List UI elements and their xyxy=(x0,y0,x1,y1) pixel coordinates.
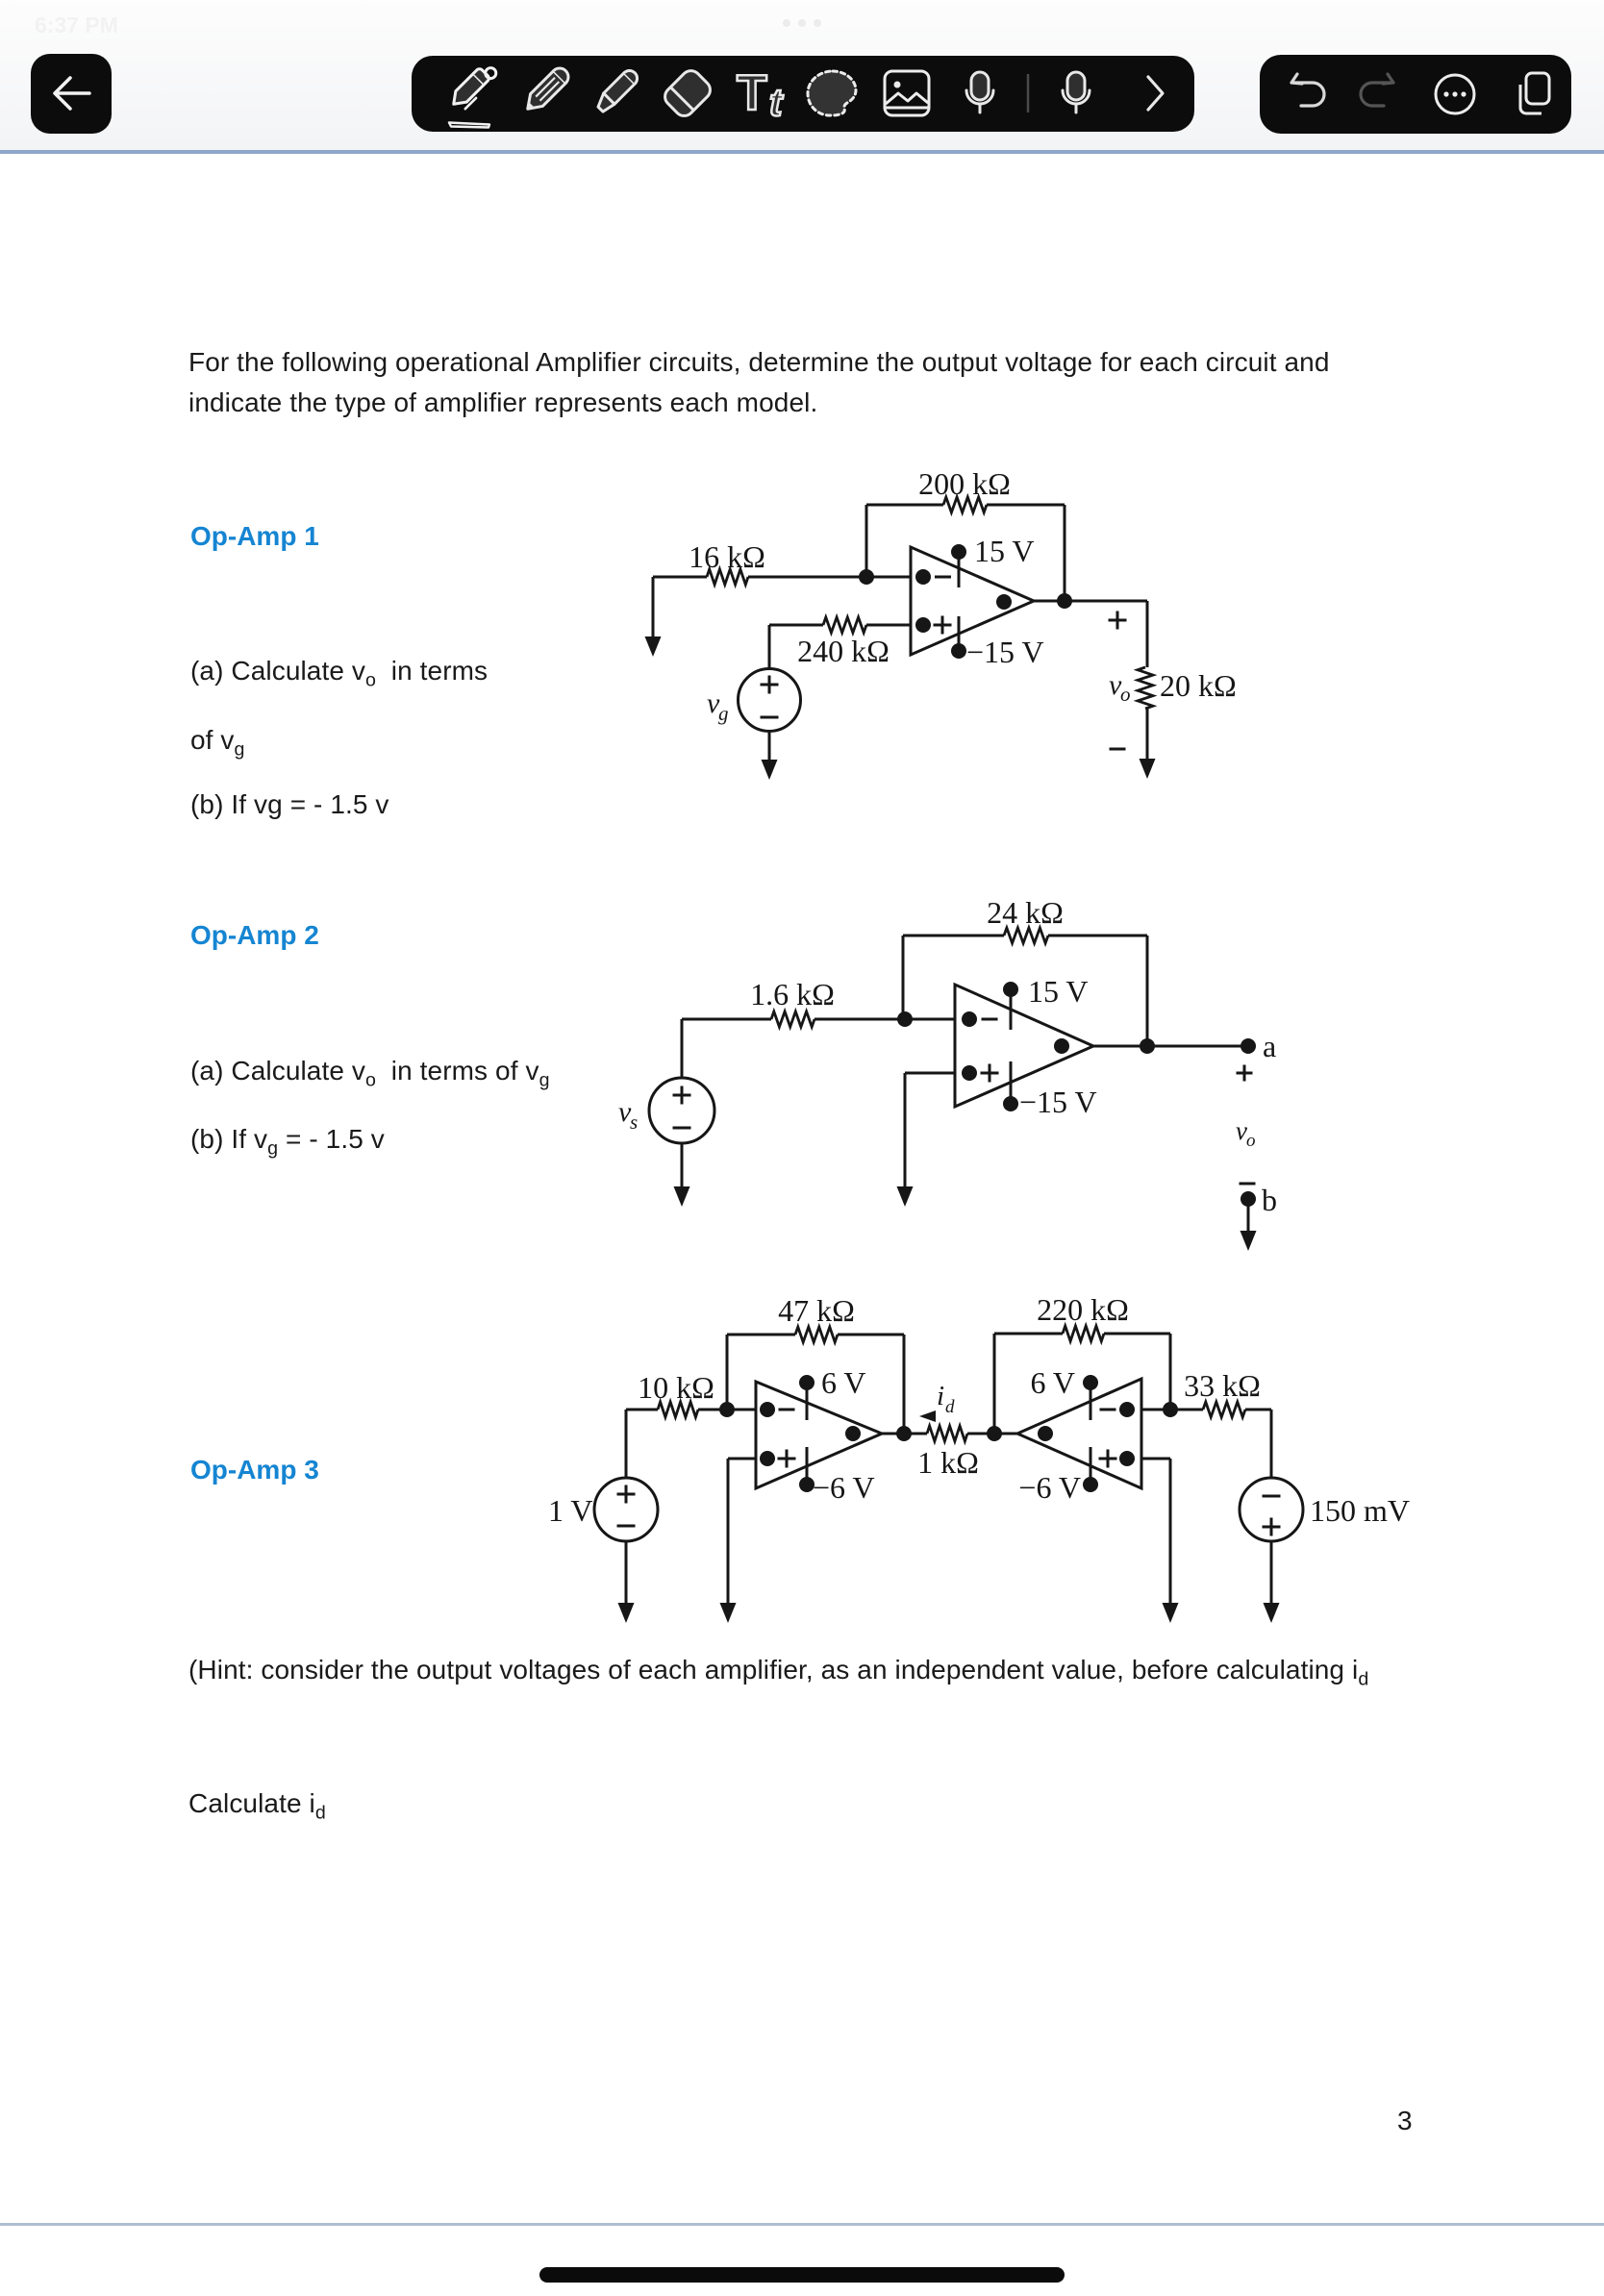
svg-text:200 kΩ: 200 kΩ xyxy=(918,466,1011,501)
svg-text:a: a xyxy=(1263,1029,1276,1063)
svg-text:33 kΩ: 33 kΩ xyxy=(1184,1368,1261,1403)
svg-text:b: b xyxy=(1262,1183,1277,1217)
svg-text:−6 V: −6 V xyxy=(813,1470,875,1505)
svg-text:220 kΩ: 220 kΩ xyxy=(1037,1292,1129,1327)
svg-text:−6 V: −6 V xyxy=(1018,1470,1081,1505)
svg-text:s: s xyxy=(630,1111,638,1134)
svg-text:o: o xyxy=(1120,683,1131,706)
svg-text:1.6 kΩ: 1.6 kΩ xyxy=(750,977,835,1011)
svg-text:i: i xyxy=(937,1381,944,1411)
svg-text:240 kΩ: 240 kΩ xyxy=(797,634,890,668)
svg-text:1 V: 1 V xyxy=(548,1493,593,1528)
svg-text:10 kΩ: 10 kΩ xyxy=(638,1370,714,1405)
svg-text:24 kΩ: 24 kΩ xyxy=(987,895,1064,930)
svg-text:16 kΩ: 16 kΩ xyxy=(689,539,765,574)
svg-text:o: o xyxy=(1246,1131,1256,1151)
svg-text:d: d xyxy=(945,1397,955,1417)
svg-text:15 V: 15 V xyxy=(1028,974,1089,1009)
svg-text:−15 V: −15 V xyxy=(966,635,1044,669)
svg-text:−15 V: −15 V xyxy=(1019,1085,1097,1119)
svg-text:6 V: 6 V xyxy=(821,1365,866,1400)
svg-text:15 V: 15 V xyxy=(974,534,1035,568)
svg-text:47 kΩ: 47 kΩ xyxy=(778,1293,855,1328)
svg-text:g: g xyxy=(718,702,729,725)
svg-text:6 V: 6 V xyxy=(1030,1365,1075,1400)
svg-text:150 mV: 150 mV xyxy=(1310,1493,1410,1528)
svg-text:20 kΩ: 20 kΩ xyxy=(1160,668,1237,703)
svg-text:1 kΩ: 1 kΩ xyxy=(917,1445,979,1480)
